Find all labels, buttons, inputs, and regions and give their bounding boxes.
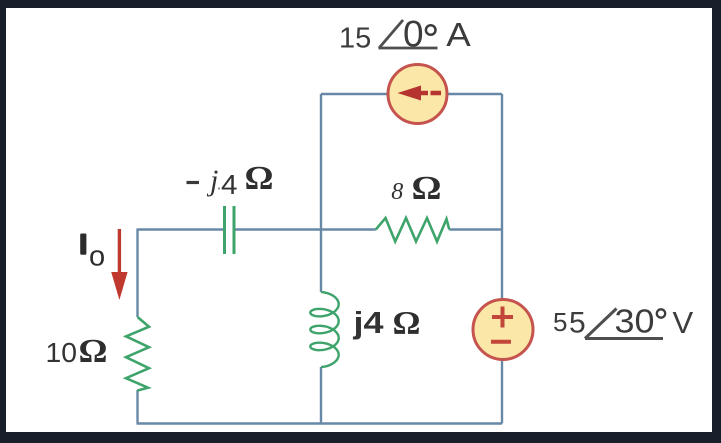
- angle symbol bottom: slant: [585, 309, 617, 339]
- svg-text:j4: j4: [352, 305, 384, 340]
- wire middle horizontal center: [234, 228, 376, 230]
- svg-text:o: o: [89, 241, 105, 273]
- Io arrow line: [118, 229, 121, 273]
- svg-text:5: 5: [569, 307, 586, 340]
- voltage source minus: [491, 340, 511, 344]
- voltage source plus: [492, 307, 513, 328]
- wire left vertical upper: [136, 229, 138, 318]
- wire middle horizontal left: [138, 228, 225, 230]
- svg-text:8: 8: [391, 179, 403, 205]
- svg-text:V: V: [673, 305, 694, 340]
- svg-text:30: 30: [615, 303, 655, 340]
- angle symbol top: underline: [379, 47, 438, 50]
- capacitor C plate right: [233, 206, 236, 254]
- label -j4ohm : stray dot: [218, 187, 220, 189]
- current source arrow head: [398, 86, 422, 101]
- degree ring bottom: [657, 309, 665, 317]
- voltage source circle: [473, 300, 533, 360]
- angle symbol bottom: underline: [585, 337, 663, 340]
- resistor R 10ohm zigzag: [126, 317, 149, 391]
- svg-text:Ω: Ω: [79, 333, 108, 370]
- svg-text:10: 10: [46, 337, 78, 368]
- current source arrow tail: [421, 91, 442, 96]
- svg-text:A: A: [446, 16, 471, 53]
- wire middle vertical lower: [320, 367, 322, 424]
- inductor L j4ohm coil: [310, 292, 338, 367]
- label -j4ohm : minus: [187, 181, 200, 184]
- wire top: [321, 93, 502, 95]
- angle symbol top: slant: [379, 20, 403, 48]
- svg-text:5: 5: [553, 307, 567, 337]
- svg-text:Ω: Ω: [245, 160, 274, 197]
- wire bottom: [137, 422, 503, 424]
- wire left vertical lower: [136, 390, 138, 424]
- wire middle horizontal right: [449, 228, 502, 230]
- svg-text:0: 0: [403, 14, 424, 55]
- label Io : I bar: [80, 234, 86, 255]
- capacitor C plate left: [223, 206, 226, 254]
- svg-text:4: 4: [221, 169, 238, 200]
- svg-text:15: 15: [339, 23, 371, 55]
- Io arrow head: [111, 272, 127, 300]
- svg-text:Ω: Ω: [393, 306, 421, 342]
- degree ring top: [426, 25, 436, 35]
- resistor R 8ohm zigzag: [376, 218, 450, 242]
- svg-text:Ω: Ω: [412, 170, 442, 207]
- wire right vertical: [501, 94, 503, 424]
- current source circle: [388, 65, 447, 124]
- wire middle vertical upper: [320, 94, 322, 292]
